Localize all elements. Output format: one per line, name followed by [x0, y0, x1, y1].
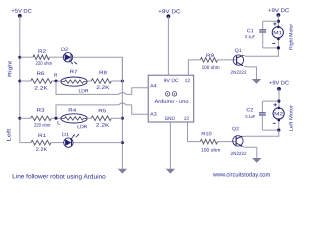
wire 9V M1 drop: [277, 15, 279, 27]
wire R6-node: [52, 80, 60, 82]
label 2.2K r6: [34, 86, 48, 92]
power +9V DC M2: [269, 80, 289, 86]
label Arduino - uno: [154, 99, 188, 105]
wire C1 top lead: [262, 21, 264, 30]
label R1: [38, 133, 46, 139]
svg-text:Right: Right: [8, 60, 14, 77]
capacitor C1: [259, 30, 266, 32]
wire C1 bottom lead: [262, 32, 264, 48]
wire R to A4: [56, 81, 148, 94]
label M2: [274, 111, 284, 116]
node L: [55, 117, 58, 120]
wire 9V M2 drop: [278, 89, 280, 108]
svg-text:R5: R5: [98, 108, 106, 114]
wire row1 right: [73, 57, 123, 81]
label D1: [62, 132, 69, 138]
node 9V M2: [277, 87, 281, 91]
label Q2: [232, 126, 239, 132]
wire GND pin: [169, 122, 171, 169]
resistor R6: [31, 79, 52, 84]
ground arduino: [166, 169, 175, 174]
svg-text:A3: A3: [150, 112, 157, 118]
label C1: [247, 28, 254, 34]
junction M2 top terminal: [278, 107, 281, 110]
junction row3 right: [121, 117, 124, 120]
svg-text:2N2222: 2N2222: [230, 70, 246, 75]
label 220 ohm: [36, 61, 53, 67]
motor M1: [272, 27, 283, 38]
svg-text:LDR: LDR: [78, 88, 88, 94]
wire pin13: [188, 122, 201, 142]
symbol crystal a: [165, 92, 169, 96]
wire M2 bottom bar: [262, 129, 278, 131]
wire row1 left: [20, 56, 33, 58]
wire row4 right: [73, 142, 122, 144]
label pin A3: [150, 112, 157, 118]
junction M1 bottom bar: [277, 46, 280, 49]
svg-text:Right Motor: Right Motor: [288, 24, 294, 50]
svg-text:R1: R1: [38, 133, 46, 139]
label pin 12: [185, 78, 191, 84]
resistor R1: [31, 140, 51, 145]
svg-text:+9V DC: +9V DC: [158, 9, 181, 15]
resistor R3: [31, 116, 52, 121]
label R3: [36, 108, 44, 114]
wire Q2 collector: [243, 130, 279, 137]
svg-text:R2: R2: [38, 49, 46, 55]
label Right Motor: [288, 24, 294, 50]
wire R2-D2: [50, 56, 64, 58]
transistor Q1: [233, 55, 243, 66]
svg-text:R10: R10: [201, 131, 212, 137]
wire M2 top bar: [262, 100, 278, 102]
junction M2 top bar: [277, 100, 280, 103]
wire Q1 collector: [243, 48, 278, 56]
ground Q1: [252, 79, 261, 84]
label 9V DC pin: [164, 78, 179, 84]
LED D2: [63, 53, 77, 65]
label D2: [61, 47, 68, 53]
svg-text:Left Motor: Left Motor: [288, 105, 294, 132]
wire L to A3: [56, 103, 148, 118]
svg-text:R7: R7: [69, 69, 77, 75]
label Left: [6, 128, 12, 141]
wire R4-R5: [87, 117, 91, 119]
wire R10-Q2: [218, 141, 237, 143]
wire R1-D1: [51, 142, 64, 144]
wire R9-Q1: [218, 59, 237, 61]
svg-text:M1: M1: [273, 30, 283, 35]
junction M1 top bar: [277, 20, 280, 23]
resistor R10: [200, 139, 217, 144]
label Right: [8, 60, 14, 77]
label pin 13: [184, 116, 189, 122]
wire M1 bottom bar: [263, 47, 279, 49]
resistor R8: [91, 79, 111, 84]
junction M1 top terminal: [277, 26, 280, 29]
svg-text:LDR: LDR: [77, 124, 87, 130]
svg-text:D2: D2: [61, 47, 68, 53]
node M2 plus: [274, 103, 277, 106]
label R6: [36, 71, 44, 77]
ground sensor: [118, 169, 127, 174]
junction M1 bottom terminal: [277, 38, 280, 41]
label GND pin: [165, 116, 176, 122]
svg-text:R6: R6: [36, 71, 44, 77]
svg-text:D1: D1: [62, 132, 69, 138]
power +9V DC M1: [268, 8, 289, 14]
node +5V: [18, 14, 22, 18]
wire +5V rail: [19, 16, 21, 143]
LED D1: [64, 134, 79, 147]
node M2 minus: [273, 122, 276, 124]
junction row3: [18, 117, 21, 120]
LDR R7: [61, 77, 87, 86]
svg-text:2.2K: 2.2K: [96, 85, 110, 91]
label 0.1uF c2: [245, 114, 255, 119]
svg-text:9V DC: 9V DC: [164, 78, 179, 84]
ground Q2: [252, 158, 261, 163]
svg-text:2.2K: 2.2K: [34, 86, 48, 92]
wire row3 left: [20, 117, 31, 119]
svg-text:R9: R9: [206, 53, 214, 59]
label pin A4: [150, 83, 157, 89]
resistor R2: [33, 55, 50, 60]
label 100 ohm r9: [202, 65, 220, 71]
svg-text:Arduino - uno: Arduino - uno: [154, 99, 188, 105]
svg-text:+5V DC: +5V DC: [11, 9, 31, 15]
svg-text:R4: R4: [68, 108, 76, 114]
wire row2 right: [111, 80, 122, 82]
wire pin12: [188, 60, 200, 75]
junction row1: [18, 56, 21, 59]
junction M2 bottom terminal: [278, 119, 281, 122]
svg-text:+9V DC: +9V DC: [269, 80, 289, 86]
wire row4 left: [20, 142, 31, 144]
op-amp U1 arduino box: [148, 75, 194, 122]
wire C2 top lead: [261, 101, 263, 113]
node 9V arduino: [167, 14, 171, 18]
label title: [12, 173, 106, 180]
junction row1-row2: [121, 80, 124, 83]
svg-text:Q2: Q2: [232, 126, 239, 132]
label R5: [98, 108, 106, 114]
svg-text:2N2222: 2N2222: [230, 151, 246, 156]
svg-text:R3: R3: [36, 108, 44, 114]
capacitor C2: [259, 113, 266, 115]
svg-text:A4: A4: [150, 83, 157, 89]
label R: [54, 73, 58, 79]
svg-text:2.2K: 2.2K: [96, 123, 110, 129]
wire M1 top bar: [263, 20, 279, 22]
transistor Q2: [233, 136, 243, 147]
LDR R4: [61, 114, 87, 123]
label 2N2222 q1: [230, 70, 246, 75]
wire Q2 emitter: [243, 147, 256, 158]
junction row2: [18, 80, 21, 83]
wire R3-node: [51, 117, 61, 119]
label 2.2K r8: [96, 85, 110, 91]
label C2: [246, 107, 253, 113]
label 2N2222 q2: [230, 151, 246, 156]
label website: [212, 171, 271, 178]
label 220 ohm r3: [34, 123, 51, 129]
svg-text:0.1uF: 0.1uF: [245, 34, 255, 39]
junction row4 right: [121, 141, 124, 144]
power +9V DC arduino: [158, 9, 181, 15]
svg-text:C2: C2: [246, 107, 253, 113]
svg-text:www.circuitstoday.com: www.circuitstoday.com: [212, 171, 271, 178]
motor M2: [273, 108, 284, 119]
junction M2 bottom bar: [277, 129, 280, 132]
svg-text:100 ohm: 100 ohm: [201, 148, 221, 154]
svg-text:M2: M2: [274, 111, 284, 116]
label LDR r7: [78, 88, 88, 94]
node 9V M1: [277, 13, 281, 17]
label L: [57, 120, 61, 126]
resistor R5: [91, 116, 111, 121]
wire M1 bottom: [277, 38, 279, 48]
wire row3 right: [111, 117, 122, 119]
svg-text:0.1uF: 0.1uF: [245, 114, 255, 119]
label 2.2K r5: [96, 123, 110, 129]
svg-text:Left: Left: [6, 128, 12, 141]
svg-text:2.2K: 2.2K: [36, 147, 48, 153]
label 100 ohm r10: [201, 148, 221, 154]
svg-text:100 ohm: 100 ohm: [202, 65, 220, 71]
symbol crystal b: [172, 92, 176, 96]
wire 9V to arduino: [167, 16, 169, 75]
wire Q1 emitter: [244, 66, 256, 79]
label 2.2K r1: [36, 147, 48, 153]
svg-text:12: 12: [185, 78, 191, 84]
node M1 minus: [272, 42, 275, 44]
label Left Motor: [288, 105, 294, 132]
svg-text:220 ohm: 220 ohm: [34, 123, 51, 129]
node R: [55, 80, 58, 83]
resistor R9: [200, 58, 217, 63]
label M1: [273, 30, 283, 35]
svg-text:Line follower robot using Ardu: Line follower robot using Arduino: [12, 173, 106, 180]
wire M2 bottom: [278, 119, 280, 130]
label R9: [206, 53, 214, 59]
label R10: [201, 131, 212, 137]
label Q1: [235, 48, 242, 54]
svg-text:13: 13: [184, 116, 189, 122]
label 0.1uF c1: [245, 34, 255, 39]
label R4: [68, 108, 76, 114]
wire row2 left: [20, 80, 31, 82]
svg-text:R: R: [54, 73, 58, 79]
svg-text:R8: R8: [99, 70, 107, 76]
label R8: [99, 70, 107, 76]
power +5V DC label: [11, 9, 31, 15]
node M1 plus: [273, 22, 276, 25]
svg-text:GND: GND: [165, 116, 176, 122]
label R7: [69, 69, 77, 75]
label R2: [38, 49, 46, 55]
label LDR r4: [77, 124, 87, 130]
wire C2 bottom lead: [261, 115, 263, 130]
svg-text:L: L: [57, 120, 61, 126]
svg-text:220 ohm: 220 ohm: [36, 61, 53, 67]
wire sensor gnd rail: [121, 57, 123, 169]
wire R7-R8: [87, 80, 91, 82]
svg-text:Q1: Q1: [235, 48, 242, 54]
